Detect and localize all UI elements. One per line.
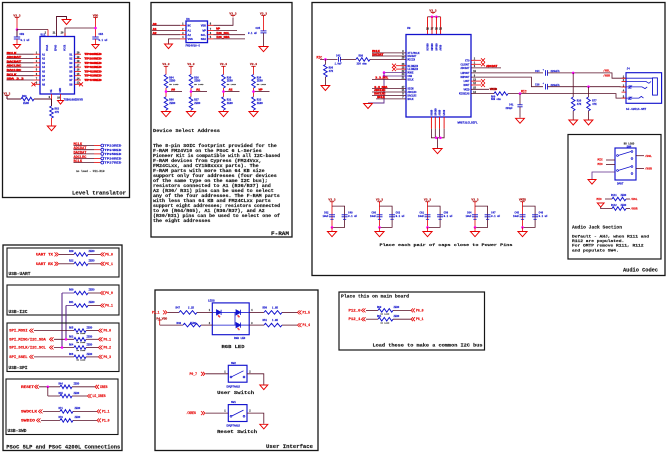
- svg-text:P1_5: P1_5: [303, 311, 311, 315]
- svg-text:ZERO: ZERO: [74, 383, 80, 386]
- connector J4 plug bar: [653, 78, 658, 95]
- wire ADCDAT net: [471, 67, 501, 69]
- svg-text:A1: A1: [188, 30, 192, 33]
- wire MIC to C42: [320, 58, 338, 60]
- no-connect LLINEIN: [396, 68, 406, 70]
- svg-text:NO LOAD: NO LOAD: [77, 349, 86, 352]
- svg-text:WP: WP: [203, 30, 207, 33]
- svg-text:CN3: CN3: [20, 33, 25, 36]
- wire C35 to ground: [263, 33, 265, 47]
- capacitor C63: [389, 214, 395, 216]
- wire OE to R63: [51, 99, 53, 106]
- svg-text:+: +: [543, 68, 545, 71]
- pin B7 stub: [75, 79, 82, 81]
- wire power pin 4: [440, 17, 442, 35]
- svg-text:EPAD: EPAD: [55, 44, 58, 51]
- svg-text:47K: 47K: [55, 111, 60, 114]
- wire net A3: [7, 62, 34, 64]
- svg-text:USB-I2C: USB-I2C: [9, 311, 29, 315]
- svg-text:26: 26: [435, 28, 438, 31]
- svg-text:R28: R28: [69, 250, 74, 253]
- wire SW4 input a: [606, 159, 615, 161]
- resistor R48: [183, 323, 201, 327]
- svg-text:NO LOAD: NO LOAD: [194, 83, 204, 86]
- junction cap pair 5: [521, 226, 524, 229]
- svg-text:MIC: MIC: [597, 198, 603, 201]
- svg-text:WM8731CLSEFL: WM8731CLSEFL: [458, 121, 478, 124]
- svg-text:ZERO: ZERO: [621, 204, 627, 207]
- svg-text:GND: GND: [59, 87, 62, 92]
- svg-text:HPVDD: HPVDD: [436, 43, 439, 51]
- wire V3.3 to R30: [223, 66, 225, 74]
- svg-text:NO LOAD: NO LOAD: [77, 332, 86, 335]
- wire V3.3 to junction: [16, 18, 18, 30]
- svg-text:R112 are populated.: R112 are populated.: [572, 239, 624, 244]
- svg-text:SPI_SSEL: SPI_SSEL: [9, 355, 27, 359]
- wire SW4 out b: [636, 168, 644, 170]
- wire cap pair 5 ground: [522, 227, 524, 231]
- svg-text:R90: R90: [377, 306, 382, 309]
- svg-text:TP37RED: TP37RED: [104, 162, 121, 165]
- svg-text:Reset Switch: Reset Switch: [217, 430, 258, 435]
- wire testpoint TP37RED: [74, 162, 95, 164]
- section box: USB-UART: [7, 248, 119, 277]
- wire VDD to V3.3: [214, 18, 234, 26]
- junction at V3.3 rail: [16, 28, 19, 31]
- wire to codec ground symbol: [437, 138, 439, 148]
- wire node WP: [253, 88, 255, 97]
- ground below R77: [584, 120, 593, 125]
- wire CN4 to ground: [95, 39, 97, 45]
- svg-text:V3.3: V3.3: [220, 63, 227, 66]
- svg-text:A2: A2: [153, 31, 157, 35]
- wire SWDIO: [41, 419, 60, 421]
- svg-text:RHPOUT: RHPOUT: [460, 76, 470, 79]
- wire cap pair 1 ground: [331, 227, 333, 231]
- svg-text:NO LOAD: NO LOAD: [257, 83, 267, 86]
- svg-text:AVDD: AVDD: [440, 44, 443, 50]
- wire SCLK net: [372, 78, 406, 80]
- wire R99 to MIC node: [508, 93, 531, 95]
- wire DACDAT: [372, 55, 406, 57]
- resistor R62: [21, 97, 34, 101]
- wire R44 to XRES: [72, 386, 95, 388]
- resistor R64: [74, 346, 86, 350]
- pin A1 stub: [34, 53, 41, 55]
- ground below R33: [249, 112, 258, 117]
- resistor R64: [164, 75, 168, 89]
- switch SW4 pole 1: [618, 152, 631, 156]
- wire cap pair 2 rails: [379, 202, 381, 228]
- svg-text:XRES: XRES: [100, 385, 108, 389]
- ground SW4: [588, 180, 596, 185]
- svg-text:USB-SWD: USB-SWD: [8, 430, 28, 434]
- svg-text:10uF: 10uF: [465, 215, 472, 218]
- junction RHPOUT: [587, 85, 590, 88]
- junction SDA: [65, 338, 68, 341]
- capacitor CN3: [16, 30, 18, 38]
- connector chevron P1_5: [298, 310, 302, 314]
- section box: Level translator: [3, 3, 130, 198]
- wire SW4 input b: [606, 164, 615, 166]
- connector chevron SWDIO: [37, 418, 41, 422]
- svg-text:B6: B6: [69, 75, 73, 78]
- svg-text:B8: B8: [69, 83, 73, 86]
- svg-text:LOUT: LOUT: [463, 80, 470, 83]
- svg-text:/XRES: /XRES: [187, 411, 197, 415]
- wire VMID stub: [471, 88, 489, 90]
- op-amp U9 audio codec body: [406, 35, 471, 118]
- svg-text:SPI_MISO/I2C_SDA: SPI_MISO/I2C_SDA: [9, 337, 46, 341]
- svg-text:V3.3: V3.3: [328, 199, 335, 202]
- connector chevron P5_1: [101, 262, 105, 266]
- capacitor C42: [338, 57, 340, 62]
- pin A7 stub: [34, 79, 41, 81]
- resistor R34: [252, 75, 256, 89]
- svg-text:R91: R91: [377, 315, 382, 318]
- ground below GND pin: [58, 101, 64, 105]
- wire node A2: [223, 88, 225, 97]
- svg-text:V3.3: V3.3: [424, 199, 431, 202]
- svg-text:User Interface: User Interface: [266, 444, 313, 450]
- svg-text:Audio Jack Section: Audio Jack Section: [572, 226, 622, 231]
- wire WP net: [214, 30, 238, 32]
- svg-text:U6: U6: [186, 18, 190, 21]
- wire pin 4 to R50: [249, 311, 264, 313]
- svg-text:U11: U11: [41, 33, 46, 36]
- svg-text:R65: R65: [69, 327, 74, 330]
- svg-text:2: 2: [209, 322, 211, 325]
- wire VCCB pin: [65, 28, 96, 37]
- svg-text:P6_0: P6_0: [105, 291, 113, 295]
- svg-text:B4: B4: [69, 66, 73, 69]
- connector chevron /XRES: [201, 411, 205, 415]
- ground below R37: [186, 112, 195, 117]
- capacitor C66: [377, 214, 383, 216]
- wire RESET: [39, 386, 60, 388]
- junction CSB: [383, 75, 386, 78]
- resistor R96: [324, 59, 326, 64]
- resistor R90: [378, 309, 393, 313]
- svg-text:Place this on main board: Place this on main board: [341, 295, 409, 300]
- wire R112 out: [626, 208, 630, 210]
- pin 2 stub: [180, 30, 186, 32]
- F-RAM chip U6 body: [186, 21, 208, 43]
- junction codec power 2: [435, 15, 438, 18]
- svg-text:Audio Codec: Audio Codec: [623, 268, 658, 274]
- svg-text:10: 10: [57, 96, 60, 99]
- no-connect CLKOUT: [471, 63, 481, 65]
- svg-text:ZERO: ZERO: [89, 301, 96, 304]
- wire R111 out: [626, 198, 630, 200]
- wire V3.3 to C35: [263, 16, 265, 31]
- connector chevron P6_0: [99, 329, 103, 333]
- svg-text:R62: R62: [22, 95, 27, 98]
- svg-text:ROUT: ROUT: [463, 84, 470, 87]
- svg-text:ADCDAT: ADCDAT: [460, 67, 470, 70]
- capacitor C46: [532, 214, 538, 216]
- svg-text:R64: R64: [69, 344, 74, 347]
- wire R90 to P6_0: [393, 309, 411, 311]
- svg-text:Default - AHJ, when R111 and: Default - AHJ, when R111 and: [572, 235, 650, 240]
- connector chevron RESET: [35, 385, 39, 389]
- wire net A2: [7, 58, 34, 60]
- wire SW2 to ground: [247, 374, 264, 385]
- svg-text:BCLK: BCLK: [378, 95, 386, 99]
- svg-text:L5_XRES: L5_XRES: [93, 394, 106, 398]
- wire net A7: [7, 79, 34, 81]
- svg-text:20: 20: [61, 32, 64, 35]
- svg-text:NO LOAD: NO LOAD: [77, 358, 86, 361]
- pin B3 stub: [75, 62, 82, 64]
- resistor R45: [60, 394, 72, 398]
- junction LHPOUT: [572, 72, 575, 75]
- ground cap pair 3: [423, 232, 432, 237]
- junction cap pair 1: [331, 226, 334, 229]
- svg-text:R47: R47: [176, 306, 181, 309]
- switch SW2 body: [228, 365, 247, 382]
- svg-text:220pF: 220pF: [506, 107, 514, 110]
- wire cap pair 1 rails: [331, 202, 333, 228]
- svg-text:A6: A6: [42, 75, 46, 78]
- svg-text:1: 1: [224, 410, 226, 413]
- wire MODE/CSB to ground: [368, 73, 384, 103]
- capacitor C45: [520, 214, 526, 216]
- svg-text:B5: B5: [69, 71, 73, 74]
- ground SW2: [260, 385, 268, 390]
- resistor R30: [222, 75, 226, 89]
- svg-text:1.0uF: 1.0uF: [335, 63, 343, 66]
- wire C42 to R98: [341, 58, 357, 60]
- svg-text:B3: B3: [69, 62, 73, 65]
- svg-text:A4: A4: [42, 66, 46, 69]
- wire cap pair 4 ground: [474, 227, 476, 231]
- svg-text:VDD: VDD: [93, 14, 99, 17]
- LED D1 (red): [212, 311, 216, 313]
- connector J4 sleeve contact: [626, 96, 644, 98]
- no-connect XTO: [471, 59, 481, 61]
- wire testpoint TP33RED: [74, 145, 95, 147]
- svg-text:Device Select Address: Device Select Address: [153, 128, 220, 134]
- svg-text:TP43RED: TP43RED: [85, 75, 102, 78]
- wire net A4: [7, 66, 34, 68]
- svg-text:R112: R112: [611, 204, 617, 207]
- wire V3.3 to R34: [253, 66, 255, 74]
- wire R61 to P6_1: [88, 305, 101, 307]
- svg-text:SJ-43514-SMT: SJ-43514-SMT: [626, 108, 646, 111]
- wire VDD rail: [95, 18, 97, 38]
- pin A8 stub: [34, 83, 41, 85]
- wire C36 to jack: [548, 86, 627, 88]
- junction SCL: [61, 346, 64, 349]
- junction node A2: [222, 90, 225, 93]
- wire R36 to ground: [572, 111, 574, 120]
- svg-text:EPAD: EPAD: [443, 109, 446, 115]
- wire R96 to ground: [324, 77, 326, 86]
- wire LHPOUT to C34: [471, 72, 543, 74]
- testpoint ring TP36RED: [101, 157, 104, 160]
- svg-text:RGB LED: RGB LED: [222, 345, 245, 350]
- svg-text:10uF: 10uF: [418, 215, 425, 218]
- svg-text:U9: U9: [407, 27, 411, 30]
- resistor R61: [74, 304, 88, 308]
- junction RESET: [47, 386, 50, 389]
- wire R48 to pin 2: [201, 324, 212, 326]
- wire C34 to jack: [548, 73, 627, 78]
- connector chevron P6_1: [411, 317, 415, 321]
- junction codec ground 2: [439, 137, 442, 140]
- svg-text:RESET: RESET: [21, 385, 34, 389]
- svg-text:/HSR: /HSR: [631, 207, 638, 211]
- ground below R63: [47, 126, 55, 131]
- ground codec: [433, 149, 442, 154]
- pin B8 stub: [75, 83, 82, 85]
- connector chevron L5_XRES: [88, 394, 92, 398]
- wire UART RX to R22: [59, 263, 74, 265]
- svg-text:10uF: 10uF: [513, 215, 520, 218]
- svg-text:ZERO: ZERO: [394, 315, 400, 318]
- svg-text:0.1 uF: 0.1 uF: [396, 215, 406, 218]
- wire R66 to P6_3: [86, 356, 99, 358]
- svg-text:3.3_SCL: 3.3_SCL: [376, 76, 389, 80]
- svg-text:2: 2: [249, 370, 251, 373]
- svg-text:LHPOUT: LHPOUT: [460, 72, 470, 75]
- svg-text:Level translator: Level translator: [72, 191, 126, 197]
- svg-text:A0: A0: [172, 88, 176, 92]
- junction cap pair 3: [426, 226, 429, 229]
- wire SPI_SCLK/I2C_SCL: [54, 347, 74, 349]
- svg-text:PSoC 5LP and PSoC 4200L Connec: PSoC 5LP and PSoC 4200L Connections: [6, 444, 120, 450]
- wire SWDCLK: [43, 410, 60, 412]
- resistor R65: [74, 329, 86, 333]
- svg-text:V3.3: V3.3: [13, 14, 20, 17]
- wire net A1: [152, 30, 180, 32]
- capacitor C34: [545, 70, 547, 76]
- no-connect A8: [32, 82, 36, 86]
- svg-text:the eight addresses: the eight addresses: [153, 219, 211, 224]
- wire R64 to P6_2: [86, 347, 99, 349]
- svg-text:USB-SPI: USB-SPI: [9, 367, 29, 371]
- svg-text:R48: R48: [177, 322, 182, 325]
- capacitor C35: [261, 30, 267, 32]
- wire R91 to P6_1: [393, 318, 411, 320]
- svg-text:R45: R45: [59, 392, 64, 395]
- connector chevron P1_1 LED: [163, 310, 167, 314]
- wire R60 input: [62, 292, 74, 294]
- svg-text:VMID: VMID: [490, 88, 497, 91]
- connector chevron P5_0: [101, 252, 105, 256]
- svg-text:V3.3: V3.3: [229, 12, 236, 15]
- svg-text:NO LOAD: NO LOAD: [381, 313, 390, 316]
- svg-text:P6_0: P6_0: [416, 308, 424, 312]
- pin 5 stub: [208, 38, 214, 40]
- wire P12_1: [366, 318, 378, 320]
- wire net A6: [7, 75, 34, 77]
- svg-text:USB-UART: USB-UART: [9, 273, 32, 277]
- wire testpoint TP35RED: [74, 153, 95, 155]
- ground below C35: [259, 47, 268, 52]
- svg-text:R66: R66: [69, 353, 74, 356]
- svg-text:P6_3: P6_3: [104, 355, 112, 359]
- svg-text:A3: A3: [42, 62, 46, 65]
- wire P12_0: [366, 309, 378, 311]
- svg-text:V3.3: V3.3: [471, 199, 478, 202]
- wire codec ground pin: [430, 117, 432, 129]
- wire V3.3 to R64: [165, 66, 167, 74]
- wire codec ground pin: [439, 117, 441, 129]
- svg-text:SCL: SCL: [201, 34, 206, 37]
- resistor R50: [264, 311, 282, 315]
- wire R22 to P5_1: [88, 263, 101, 265]
- wire SDA net: [214, 38, 246, 40]
- svg-text:ZERO: ZERO: [190, 322, 197, 325]
- svg-text:SCLK: SCLK: [408, 79, 415, 82]
- capacitor C62: [329, 214, 335, 216]
- svg-text:V3.3: V3.3: [260, 12, 267, 15]
- wire BCLK net: [376, 98, 406, 100]
- junction MIC node: [519, 92, 522, 95]
- svg-text:EVQP7A01K: EVQP7A01K: [227, 385, 241, 388]
- resistor R71: [60, 410, 73, 414]
- svg-text:R98: R98: [359, 54, 364, 57]
- section box: PSoC connections outer: [3, 245, 122, 451]
- LED D3 (blue): [212, 324, 236, 326]
- svg-text:VMID: VMID: [519, 199, 526, 202]
- svg-text:A2: A2: [188, 34, 192, 37]
- wire I2C SDA vertical: [65, 306, 67, 340]
- svg-text:TP41RED: TP41RED: [85, 66, 102, 69]
- wire R62 to OE: [34, 98, 52, 100]
- svg-text:0.1 uF: 0.1 uF: [444, 215, 454, 218]
- svg-text:VCCB: VCCB: [64, 44, 67, 51]
- svg-text:4: 4: [251, 309, 253, 312]
- section box: USB-I2C: [7, 285, 119, 315]
- connector chevron SPI_SCLK/I2C_SCL: [50, 346, 54, 350]
- junction node WP: [252, 90, 255, 93]
- wire SW4 out a: [636, 155, 644, 157]
- resistor R37: [189, 97, 193, 110]
- connector J4 pin 3 stub: [622, 86, 627, 88]
- ground below R36: [569, 120, 578, 125]
- svg-text:ZERO: ZERO: [394, 306, 400, 309]
- wire net A0: [152, 24, 180, 26]
- ground below R96: [321, 86, 330, 91]
- wire node A0: [165, 88, 167, 97]
- wire codec power rail: [428, 16, 441, 18]
- svg-text:FM24V10-G: FM24V10-G: [186, 44, 201, 47]
- connector chevron P6_0: [411, 308, 415, 312]
- svg-text:27: 27: [431, 28, 434, 31]
- wire R37 to ground: [190, 110, 192, 112]
- wire SCL net: [214, 34, 246, 36]
- resistor R77 pulldown: [588, 87, 590, 97]
- wire VSS to ground: [169, 39, 181, 44]
- connector chevron SPI_MOSI: [30, 329, 34, 333]
- wire MODE net: [384, 72, 406, 74]
- svg-text:P1_1: P1_1: [102, 410, 110, 414]
- connector chevron P1_4: [298, 323, 302, 327]
- svg-text:DPDT: DPDT: [617, 182, 624, 185]
- svg-text:CN4: CN4: [99, 33, 104, 36]
- svg-text:/HSR: /HSR: [603, 73, 610, 77]
- connector chevron UART RX: [55, 262, 59, 266]
- svg-text:NO LOAD: NO LOAD: [381, 321, 390, 324]
- svg-text:TP39RED: TP39RED: [85, 58, 102, 61]
- svg-text:NO LOAD: NO LOAD: [227, 83, 237, 86]
- svg-text:V3.3: V3.3: [187, 63, 194, 66]
- svg-text:ZERO: ZERO: [74, 392, 80, 395]
- pin 4 stub: [180, 38, 186, 40]
